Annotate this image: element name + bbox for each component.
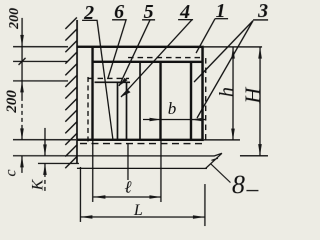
dimension shaft x45 (K) bbox=[44, 128, 46, 156]
svg-text:6: 6 bbox=[114, 1, 124, 23]
b dimension left arrow bbox=[143, 119, 161, 121]
svg-text:h: h bbox=[216, 87, 238, 97]
leader 5 bbox=[119, 20, 155, 86]
b dimension right arrow bbox=[191, 119, 205, 121]
shelf bottom line y168.5 bbox=[77, 167, 207, 169]
top edge left extension bbox=[13, 46, 68, 48]
break zigzag bbox=[205, 153, 222, 168]
b dimension line across bbox=[161, 119, 191, 121]
wall hatching bbox=[65, 17, 77, 168]
svg-text:b: b bbox=[168, 99, 177, 118]
l right extension bbox=[160, 140, 162, 202]
inner left vertical bbox=[91, 47, 93, 140]
extension line y61.5 bbox=[13, 60, 68, 62]
partition vertical x140 bbox=[139, 62, 141, 140]
arrow down y140 bbox=[20, 128, 24, 140]
dashed hidden vertical x205.7 bbox=[205, 58, 207, 143]
shelf top line y156 bbox=[13, 155, 214, 157]
box right edge bbox=[201, 46, 204, 141]
box top edge (part 1 casing top) bbox=[77, 46, 204, 49]
arrow down y46.5 bbox=[20, 35, 24, 47]
dimension shaft x22 bbox=[21, 18, 23, 97]
dashed hidden horizontal y57.5 bbox=[128, 57, 201, 59]
dashed hidden vertical x88 bbox=[87, 77, 89, 143]
inner top edge bbox=[92, 61, 202, 63]
leader 8 bbox=[210, 164, 258, 191]
wall line bbox=[76, 20, 78, 163]
leader 1 bbox=[196, 19, 228, 53]
arrow up y163.5 at x45 bbox=[43, 163, 47, 175]
h dimension line bbox=[232, 47, 234, 140]
small rect vertical x126.5 bbox=[125, 82, 127, 140]
dashed hidden horizontal y78.5 bbox=[88, 77, 129, 79]
svg-text:c: c bbox=[2, 169, 19, 176]
L right extension bbox=[204, 184, 206, 226]
top edge right extension bbox=[204, 46, 262, 48]
svg-text:L: L bbox=[133, 202, 143, 219]
leader 6 bbox=[108, 20, 126, 78]
small rect vertical x117.5 bbox=[116, 82, 118, 140]
svg-text:8: 8 bbox=[232, 170, 245, 199]
l dimension line bbox=[93, 196, 160, 198]
svg-text:K: K bbox=[29, 178, 46, 191]
box bottom edge bbox=[76, 139, 203, 142]
leader 3 (two lines) bbox=[194, 20, 268, 118]
svg-text:5: 5 bbox=[144, 1, 154, 23]
svg-text:2: 2 bbox=[83, 2, 94, 24]
extension line y81 bbox=[13, 80, 68, 82]
arrow down y156 at x45 bbox=[43, 144, 47, 156]
leader 2 bbox=[82, 20, 113, 140]
small rect top edge bbox=[95, 81, 130, 83]
arrow up y156 bbox=[20, 156, 24, 168]
svg-text:H: H bbox=[240, 87, 265, 105]
H bottom extension bbox=[240, 155, 268, 157]
svg-text:200: 200 bbox=[4, 90, 20, 114]
L dimension line bbox=[80, 216, 204, 218]
tick y61.5 bbox=[19, 58, 26, 65]
partition vertical x191 (thick) bbox=[190, 62, 192, 140]
svg-text:3: 3 bbox=[257, 0, 268, 22]
bottom edge right extension (h) bbox=[204, 139, 240, 141]
leader 4 bbox=[121, 20, 193, 97]
hidden edge x128 below box bbox=[127, 144, 129, 180]
partition vertical x160 (thick) bbox=[159, 62, 161, 140]
arrow up y81 bbox=[20, 81, 24, 93]
svg-text:ℓ: ℓ bbox=[124, 177, 131, 196]
extension line y163.5 bbox=[38, 162, 79, 164]
dashed hidden bottom y143.6 bbox=[80, 143, 206, 145]
svg-text:1: 1 bbox=[216, 0, 226, 22]
svg-text:4: 4 bbox=[179, 1, 190, 23]
H dimension line bbox=[259, 47, 261, 156]
svg-text:200: 200 bbox=[7, 8, 22, 30]
bottom edge left extension bbox=[13, 139, 76, 141]
l left extension bbox=[92, 140, 94, 202]
L left extension bbox=[79, 167, 81, 222]
